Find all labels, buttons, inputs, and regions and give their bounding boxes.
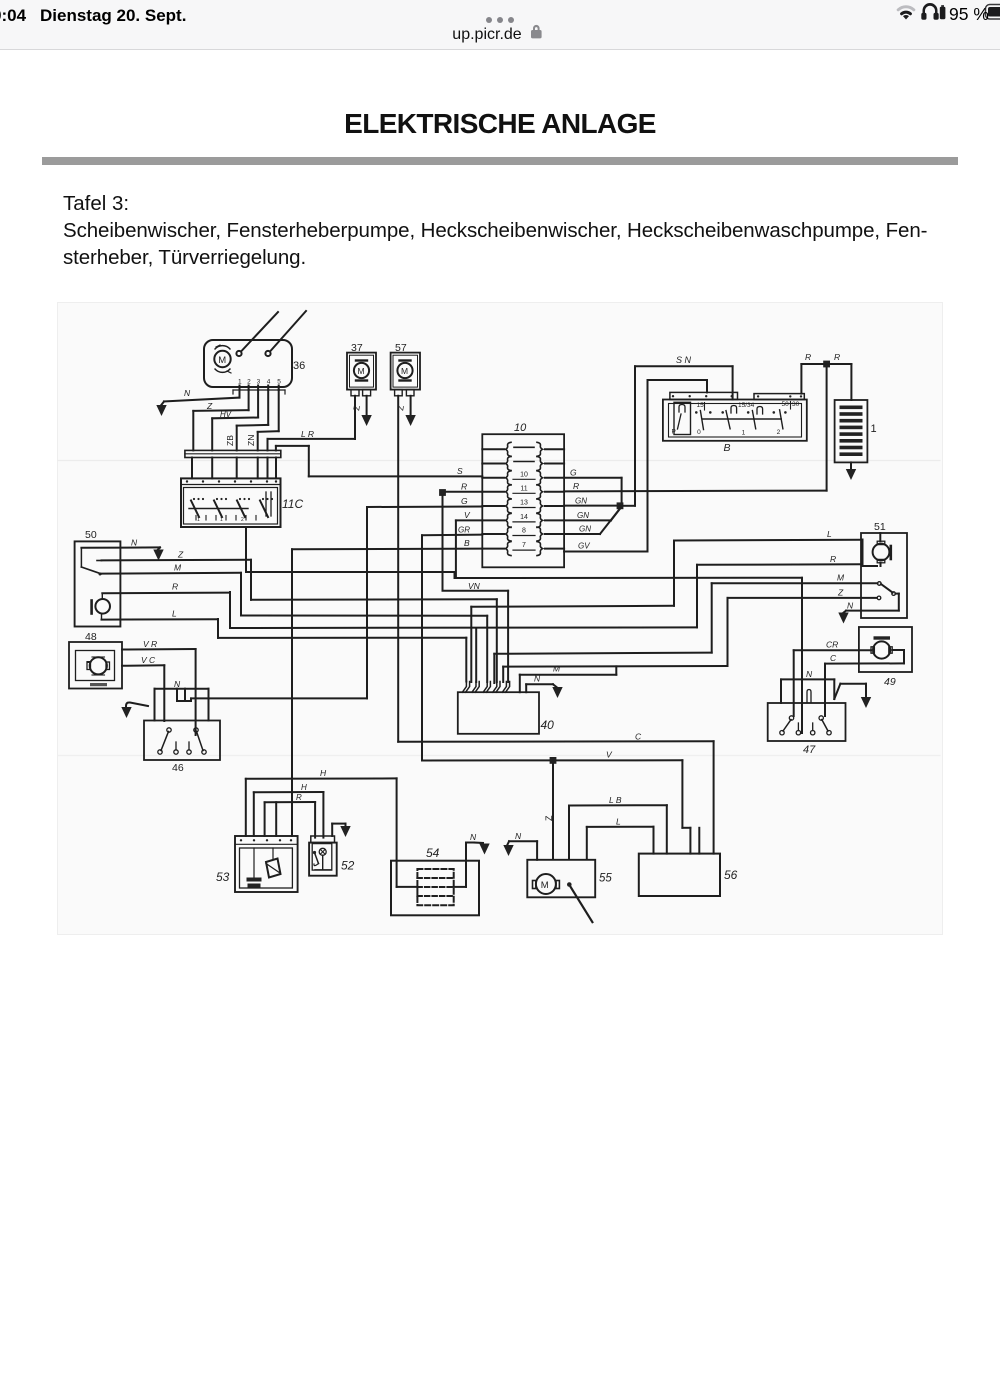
svg-text:R: R	[573, 481, 579, 491]
svg-text:R: R	[461, 482, 467, 492]
svg-text:4: 4	[267, 379, 271, 386]
wire Z from 36 pin 2	[193, 390, 248, 450]
svg-text:R: R	[805, 352, 811, 362]
wire V with junction	[422, 750, 699, 854]
wire V row 14 left down to line A	[456, 510, 482, 578]
wire SN from junction up to switch B	[621, 355, 733, 506]
svg-text:V R: V R	[143, 639, 157, 649]
fuse block 11C	[181, 478, 281, 527]
svg-text:P: P	[672, 429, 676, 436]
svg-text:R: R	[172, 582, 178, 592]
wire from 40 to Z(51) staircase right	[503, 598, 727, 682]
svg-text:55: 55	[599, 873, 612, 885]
wire VR from 48	[122, 639, 196, 735]
wire L to 51	[674, 529, 861, 541]
wire G row 13 left down to switch 46 net	[367, 496, 482, 698]
rear wiper motor 37	[347, 353, 376, 396]
wire M from 50	[101, 563, 241, 616]
svg-text:GR: GR	[458, 526, 470, 535]
svg-text:G: G	[570, 468, 577, 478]
svg-text:M: M	[541, 880, 549, 891]
wire CR from 47 to 49	[794, 640, 871, 717]
svg-text:36: 36	[293, 360, 305, 372]
wire M(40) jog	[520, 664, 617, 693]
connector 40	[458, 692, 539, 734]
svg-text:HV: HV	[220, 410, 232, 419]
svg-text:40: 40	[541, 718, 555, 732]
switch lever in 51	[846, 584, 899, 611]
wiper arm 2	[270, 311, 306, 352]
svg-text:M: M	[218, 355, 226, 366]
svg-text:15/34: 15/34	[738, 402, 755, 409]
wire C from 57 left pin long vertical	[397, 396, 399, 742]
wire Z from switch 50 to 40	[251, 599, 497, 682]
heated unit 49	[859, 627, 912, 672]
svg-text:M: M	[553, 664, 561, 674]
svg-text:M: M	[837, 573, 845, 583]
wire from 11C down to line A	[245, 527, 247, 572]
svg-text:L: L	[616, 817, 621, 827]
svg-text:L R: L R	[301, 429, 314, 439]
svg-text:Z: Z	[206, 401, 213, 411]
multi switch 47	[768, 703, 846, 741]
svg-text:49: 49	[884, 676, 896, 688]
svg-text:54: 54	[426, 846, 440, 860]
svg-text:15: 15	[697, 402, 705, 409]
wire C from 47 to 49	[825, 653, 904, 716]
ground arrow below fuse 1	[846, 462, 856, 480]
svg-text:B: B	[464, 538, 470, 548]
svg-text:N: N	[806, 669, 813, 679]
svg-text:5: 5	[277, 379, 281, 386]
svg-text:R: R	[296, 793, 302, 802]
wire LR from bus to motor 37	[268, 396, 356, 450]
connector 10	[482, 434, 564, 567]
svg-text:GV: GV	[578, 542, 590, 551]
svg-text:N: N	[515, 831, 522, 841]
svg-text:CR: CR	[826, 640, 838, 650]
svg-text:1: 1	[238, 379, 242, 386]
wire R row right up to R junction	[564, 367, 827, 491]
junction SN/GN	[617, 502, 624, 509]
svg-text:11C: 11C	[282, 497, 303, 511]
svg-text:L B: L B	[609, 795, 622, 805]
svg-text:2: 2	[777, 429, 781, 436]
wire R from switch 50 to 40 and up to 51	[230, 565, 697, 682]
wire M to 51 with switch contact	[712, 573, 881, 586]
wire GR row 8 left long drop	[422, 526, 482, 761]
wire Z + ground arrow of 57	[395, 396, 416, 426]
switch assembly B	[663, 392, 807, 440]
svg-text:GN: GN	[575, 497, 587, 506]
svg-text:Z: Z	[544, 815, 554, 821]
wire R from 53 to 52	[265, 793, 316, 838]
ground arrow left of 36	[156, 402, 166, 417]
svg-text:47: 47	[803, 744, 816, 756]
pointer line to 55	[567, 882, 592, 922]
wire GN row 8 right with diagonal to junction	[564, 509, 620, 535]
svg-text:C: C	[830, 653, 837, 663]
wire ZN from 36 pin 5	[246, 390, 279, 450]
wire H from 53 to 54	[246, 768, 397, 887]
svg-text:53: 53	[216, 870, 230, 884]
connector 10 pin rows	[482, 442, 564, 555]
wire from 40 to M(51) staircase right	[494, 583, 711, 683]
ground branch right of 47	[834, 684, 871, 708]
wire M from switch 50 to 40	[241, 616, 487, 683]
wire R to 51	[697, 554, 861, 565]
wire GV row 7 right up to switch B	[564, 380, 707, 552]
wire L from 50	[102, 609, 219, 638]
wire from bus to connector 10 row S	[276, 446, 309, 477]
svg-text:V: V	[464, 510, 471, 520]
svg-text:ZN: ZN	[246, 435, 256, 446]
window pump 54	[391, 843, 479, 916]
svg-text:51: 51	[874, 521, 886, 533]
svg-text:56: 56	[724, 868, 738, 882]
wire N + ground arrow right of 54	[466, 832, 490, 855]
pins 1-5 of motor 36	[233, 379, 285, 395]
svg-text:S: S	[457, 466, 463, 476]
svg-text:GN: GN	[577, 511, 589, 520]
wiper motor 36	[204, 340, 292, 387]
wire N + ground arrow of 51	[838, 601, 854, 624]
wire LB between 55 and 56	[569, 795, 667, 858]
ground arrow left of 46	[121, 702, 148, 718]
svg-text:N: N	[131, 538, 138, 548]
wire HV from 36 pin 3	[212, 390, 258, 450]
svg-text:C: C	[635, 732, 642, 742]
svg-text:S N: S N	[676, 355, 692, 365]
wire N + ground arrow right of 40	[526, 674, 563, 699]
svg-text:V: V	[606, 750, 613, 760]
wire C from 57 to 56	[398, 732, 713, 854]
wire R row 11 left	[446, 482, 483, 492]
svg-text:1: 1	[871, 423, 877, 435]
rear motor 55	[527, 860, 595, 898]
wire H from 53 to 52	[254, 783, 324, 838]
svg-text:48: 48	[85, 631, 97, 643]
junction on wire R row 11	[439, 489, 446, 496]
svg-text:VN: VN	[468, 581, 481, 591]
line A horizontal from 11C to relay 47	[246, 572, 802, 733]
svg-text:M: M	[401, 366, 408, 376]
wire R-R junction above fuse 1	[801, 352, 851, 400]
svg-text:L: L	[172, 609, 177, 619]
window switch 50	[75, 541, 121, 626]
svg-text:2: 2	[247, 379, 251, 386]
svg-text:3: 3	[257, 379, 261, 386]
wire feeds into 40 pins	[465, 638, 467, 682]
svg-text:52: 52	[341, 859, 355, 873]
svg-text:ZB: ZB	[225, 435, 235, 446]
svg-text:30: 30	[792, 401, 800, 408]
wire R from 50	[102, 582, 230, 629]
wire N + ground arrow left of 55	[503, 831, 537, 860]
wire S into 10 from bus	[309, 466, 483, 476]
lamp switch 52	[309, 836, 337, 876]
wire B row 7 left long drop to 53	[292, 538, 482, 836]
svg-text:G: G	[461, 496, 468, 506]
wire from 46 to G net	[191, 697, 367, 699]
wire GN row 13 right	[564, 497, 619, 506]
svg-text:2: 2	[241, 517, 244, 523]
pump motor 48	[69, 642, 122, 689]
wire ZB from 36 pin 4	[225, 390, 268, 450]
svg-text:57: 57	[395, 342, 407, 354]
svg-text:37: 37	[351, 342, 363, 354]
svg-text:50: 50	[85, 529, 97, 541]
svg-text:N: N	[174, 679, 181, 689]
slanted pins on top of 40	[462, 682, 509, 693]
wire L from switch 50 to 40	[218, 637, 466, 639]
connector bracket above 46	[155, 679, 209, 721]
wire GN row 14 right with diagonal to junction	[564, 508, 620, 520]
svg-text:R: R	[830, 554, 836, 564]
wiper arm 1	[241, 312, 278, 352]
svg-text:H: H	[320, 768, 327, 778]
svg-text:14: 14	[520, 514, 528, 521]
svg-text:1: 1	[220, 517, 223, 523]
wire N + ground arrow from 50	[81, 538, 163, 561]
svg-text:GN: GN	[579, 525, 591, 534]
control box 56	[639, 854, 720, 896]
ground arrow right of 52	[332, 824, 351, 837]
svg-text:H: H	[301, 783, 307, 792]
svg-text:0: 0	[697, 429, 701, 436]
svg-text:46: 46	[172, 762, 184, 774]
svg-text:11: 11	[520, 485, 527, 492]
svg-text:N: N	[184, 388, 191, 398]
svg-text:R: R	[834, 352, 840, 362]
svg-text:10: 10	[520, 471, 528, 478]
svg-text:8: 8	[522, 528, 526, 535]
svg-text:50: 50	[782, 401, 790, 408]
washer unit 53	[235, 836, 298, 892]
wire N from 36 pin 1	[164, 388, 240, 402]
wire VN from junction down to 40	[443, 496, 509, 683]
svg-text:N: N	[847, 601, 854, 611]
wire from 37 left pin down to LR	[354, 396, 356, 439]
svg-text:L: L	[827, 529, 832, 539]
bus bar below 36	[185, 450, 281, 457]
svg-text:Z: Z	[395, 404, 406, 411]
svg-text:1: 1	[197, 517, 200, 523]
window motor 51	[861, 533, 907, 618]
wires bus bar to fuse block 11C	[192, 458, 276, 479]
wire L between 55 and 56	[587, 817, 654, 859]
svg-text:7: 7	[522, 542, 526, 549]
svg-text:Z: Z	[177, 550, 184, 560]
svg-text:13: 13	[520, 500, 528, 507]
wire Z from junction down to 55	[544, 764, 554, 858]
wire Z + ground arrow of 37	[351, 396, 372, 426]
svg-text:N: N	[470, 832, 477, 842]
svg-text:B: B	[724, 442, 731, 454]
wire Z to 51 with contact	[728, 588, 881, 600]
svg-text:1: 1	[742, 430, 746, 437]
wire L(40) to 51 staircase	[471, 541, 674, 683]
fuse box 1	[835, 400, 868, 462]
connector bracket above 47	[781, 669, 834, 703]
svg-text:M: M	[174, 563, 182, 573]
svg-text:Z: Z	[837, 588, 844, 598]
svg-text:10: 10	[514, 422, 527, 434]
wire G row right to SN junction	[564, 468, 622, 503]
wire VC from 48	[122, 655, 164, 721]
washer pump motor 57 top	[391, 353, 420, 396]
svg-text:N: N	[534, 674, 541, 684]
svg-text:M: M	[358, 366, 365, 376]
wire Z from 50	[102, 550, 252, 600]
multi switch 46	[144, 721, 220, 761]
svg-text:Z: Z	[351, 404, 362, 411]
svg-text:V C: V C	[141, 655, 156, 665]
